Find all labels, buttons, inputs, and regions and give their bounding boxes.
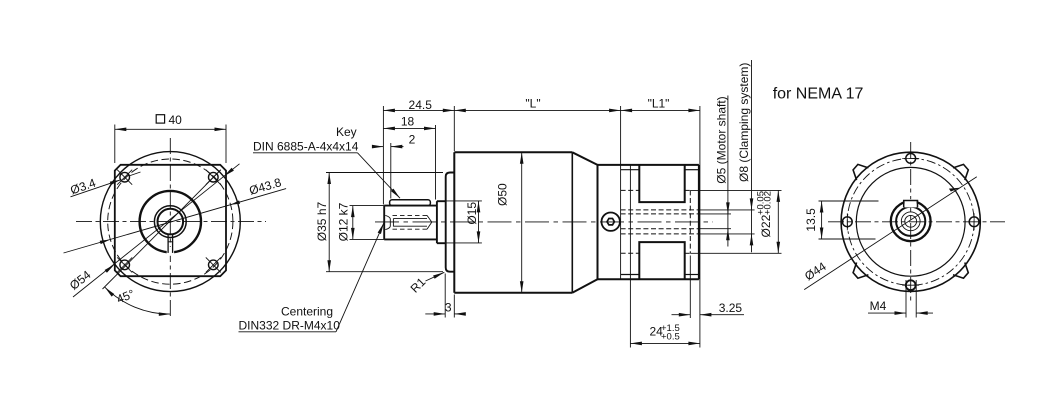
collar step lines: [621, 169, 640, 171]
keyway notch: [903, 201, 905, 208]
svg-text:Ø12 k7: Ø12 k7: [337, 202, 351, 241]
dim 24 line: [630, 342, 700, 344]
svg-text:"L1": "L1": [648, 96, 670, 110]
svg-text:M4: M4: [870, 299, 887, 313]
mounting hole bottom-left: [120, 260, 130, 270]
leader O3.4 line: [71, 180, 121, 197]
shaft bore circle O12: [158, 209, 184, 235]
svg-text:Ø54: Ø54: [67, 267, 94, 292]
mounting hole top-left: [120, 172, 130, 182]
rear end face: [698, 165, 700, 279]
dim 24.5 line: [383, 109, 454, 111]
dim O12 ext lines: [350, 205, 385, 207]
dim O8 ext lines: [699, 209, 755, 211]
leader O43.8 line: [64, 189, 287, 253]
hidden bore O22: [621, 189, 640, 191]
bolt circle O43.8 dashed: [108, 159, 233, 284]
hub outer circle: [891, 201, 931, 241]
shaft shoulder O15 face: [436, 201, 438, 243]
keyway slot white gap: [167, 247, 174, 256]
inner flange circle: [856, 167, 965, 276]
label key leader: [253, 152, 358, 154]
label R1 leader: [426, 272, 445, 281]
dim 3 line: [425, 313, 445, 315]
dim O50 line: [521, 152, 523, 292]
svg-text:DIN 6885-A-4x4x14: DIN 6885-A-4x4x14: [253, 139, 359, 153]
dim O35 line: [328, 173, 330, 272]
gearbox body front face: [453, 152, 455, 292]
hub bore circle: [896, 207, 925, 236]
mounting hole bottom-right: [209, 260, 219, 270]
rear hub outline: [597, 165, 599, 279]
dim O35 ext lines: [326, 172, 443, 174]
svg-text:Ø5 (Motor shaft): Ø5 (Motor shaft): [714, 96, 728, 183]
outer flange circle: [841, 152, 980, 291]
dim O15 line: [478, 201, 480, 243]
shaft circles: [901, 212, 920, 231]
dim 3 ext lines: [444, 274, 446, 318]
dim 13.5 line: [821, 201, 823, 239]
dim O22 line: [777, 190, 779, 253]
svg-text:45°: 45°: [114, 287, 136, 307]
dim M4 ext lines: [905, 280, 907, 318]
taper cone: [572, 152, 597, 165]
mounting hole top-right: [209, 172, 219, 182]
svg-text:13.5: 13.5: [804, 208, 818, 232]
centering hole DIN332: [385, 215, 432, 229]
dim square 40 line: [115, 128, 226, 130]
corner tab bottom-right: [953, 263, 968, 279]
45 deg diagonal construction line: [103, 170, 221, 289]
hidden bore depth: [689, 190, 691, 253]
dim L line: [454, 109, 620, 111]
corner tab top-right: [953, 164, 968, 180]
leader O54 line: [73, 164, 240, 297]
outer circle O54: [100, 152, 240, 292]
svg-text:Ø8 (Clamping system): Ø8 (Clamping system): [737, 63, 751, 182]
key 4x4x14: [390, 200, 431, 206]
top clamp slot: [639, 165, 684, 202]
corner tab top-left: [853, 164, 868, 180]
dim square 40 ext lines: [114, 125, 116, 164]
flange boss O35: [446, 173, 455, 272]
square flange 40x40: [115, 165, 226, 276]
dim O15 ext lines: [437, 200, 482, 202]
svg-text:"L": "L": [525, 96, 540, 110]
svg-text:Ø50: Ø50: [495, 183, 509, 206]
dim M4 line: [868, 312, 906, 314]
dim L1 ext line: [699, 106, 701, 348]
motor screw hole right: [969, 217, 979, 227]
hidden clamp bore O8: [621, 209, 699, 211]
svg-text:3.25: 3.25: [719, 301, 743, 315]
dim 24.5 ext lines: [382, 106, 384, 205]
motor screw hole bottom: [906, 280, 916, 290]
square symbol: [156, 115, 164, 123]
bottom clamp slot: [639, 242, 684, 279]
vertical center line: [910, 142, 912, 303]
corner tab bottom-left: [853, 263, 868, 279]
hub circle: [140, 191, 201, 252]
label centering leader: [239, 331, 337, 333]
dim 18 ext line: [435, 125, 437, 200]
horizontal center line: [76, 221, 266, 223]
dim O8 line: [751, 60, 753, 252]
hidden motor shaft O5: [621, 213, 699, 215]
dim O22 ext lines: [690, 189, 781, 191]
svg-text:Ø22: Ø22: [759, 214, 773, 237]
svg-text:DIN332 DR-M4x10: DIN332 DR-M4x10: [239, 319, 341, 333]
svg-text:Centering: Centering: [281, 304, 333, 318]
gearbox body O50 outline: [454, 151, 572, 153]
svg-text:for NEMA 17: for NEMA 17: [773, 85, 864, 102]
dim 2 line: [373, 146, 384, 148]
svg-text:Ø15: Ø15: [465, 202, 479, 225]
horizontal center line: [375, 221, 713, 223]
dim 3.25 ext lines: [689, 256, 691, 319]
motor screw hole left: [842, 217, 852, 227]
keyway slot: [167, 235, 169, 253]
dim 45deg arc: [105, 287, 171, 314]
svg-text:2: 2: [409, 133, 416, 147]
svg-text:+0.5: +0.5: [661, 332, 680, 343]
dim O5 ext lines: [699, 213, 731, 215]
svg-text:Ø3.4: Ø3.4: [68, 176, 97, 198]
svg-text:R1: R1: [408, 275, 429, 296]
motor screw hole top: [906, 154, 916, 164]
dim 18 line: [383, 127, 435, 129]
dim 3.25 line: [672, 314, 691, 316]
svg-text:Key: Key: [336, 125, 357, 139]
dim 13.5 ext lines: [819, 200, 879, 202]
svg-text:+0.02: +0.02: [763, 191, 774, 215]
dim O12 line: [352, 206, 354, 240]
keyway notch white gap: [905, 199, 917, 207]
leader O44 line: [804, 177, 977, 290]
bolt circle O44 dash-dot: [847, 158, 974, 285]
output shaft O12: [383, 206, 385, 240]
inner circle O15: [154, 206, 186, 238]
horizontal center line: [828, 221, 1005, 223]
vertical center line: [169, 138, 171, 316]
svg-text:18: 18: [401, 114, 415, 128]
dim L1 line: [621, 109, 700, 111]
svg-text:Ø35 h7: Ø35 h7: [315, 201, 329, 241]
inner joint lines: [620, 106, 622, 279]
svg-text:24.5: 24.5: [409, 98, 433, 112]
svg-text:40: 40: [169, 113, 183, 127]
dim 2 ext line: [390, 143, 392, 199]
dim O5 line: [727, 96, 729, 247]
svg-text:Ø44: Ø44: [802, 259, 829, 283]
clamp screw: [602, 213, 620, 231]
svg-text:3: 3: [445, 301, 452, 315]
